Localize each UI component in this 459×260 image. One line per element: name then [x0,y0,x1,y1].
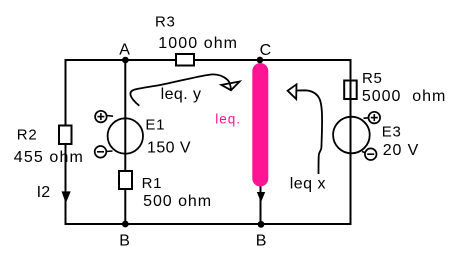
E1 minus terminal [95,146,113,158]
leq highlight bar [252,71,268,179]
I2 current arrow [62,191,71,203]
E1 plus terminal [95,111,113,123]
svg-text:R1: R1 [142,175,163,192]
svg-text:R3: R3 [155,13,176,30]
svg-text:500 ohm: 500 ohm [143,193,211,210]
node A [122,57,129,64]
branch C arrow [257,192,265,202]
svg-text:B: B [256,232,267,249]
svg-text:150 V: 150 V [147,140,191,157]
node B right [258,221,265,228]
svg-text:E1: E1 [145,116,165,133]
svg-text:R2: R2 [17,126,38,143]
svg-text:E3: E3 [382,124,402,141]
node C [257,57,264,64]
wire bottom rail [66,223,352,225]
leq x hand-drawn arrow [297,90,322,174]
svg-text:A: A [119,41,130,58]
leq x arrowhead [288,84,297,99]
leq. y arrowhead [221,82,239,91]
voltage source E3 [333,117,370,154]
E3 minus terminal [362,148,377,160]
svg-text:5000 ohm: 5000 ohm [362,88,445,105]
wire left branch [65,59,67,225]
wire right branch [350,59,352,225]
svg-text:leq. y: leq. y [161,86,201,103]
wire top A-C rail [66,59,352,61]
wire middle branch through E1 [124,60,126,224]
svg-text:1000 ohm: 1000 ohm [158,35,237,52]
resistor R5 [344,81,357,100]
resistor R3 [176,54,194,66]
resistor R2 [59,126,72,145]
svg-text:20 V: 20 V [383,142,419,159]
svg-text:B: B [119,232,130,249]
voltage source E1 [108,118,143,153]
svg-text:leq.: leq. [215,112,240,127]
node B left [122,221,129,228]
resistor R1 [119,171,132,189]
E3 plus terminal [364,112,381,124]
svg-text:455 ohm: 455 ohm [14,149,83,166]
svg-text:leq x: leq x [290,175,326,192]
svg-text:R5: R5 [362,70,383,87]
wire branch C to B [260,60,262,224]
svg-text:I2: I2 [37,184,51,201]
leq. y hand-drawn arrow [130,74,231,105]
svg-text:C: C [260,42,272,59]
